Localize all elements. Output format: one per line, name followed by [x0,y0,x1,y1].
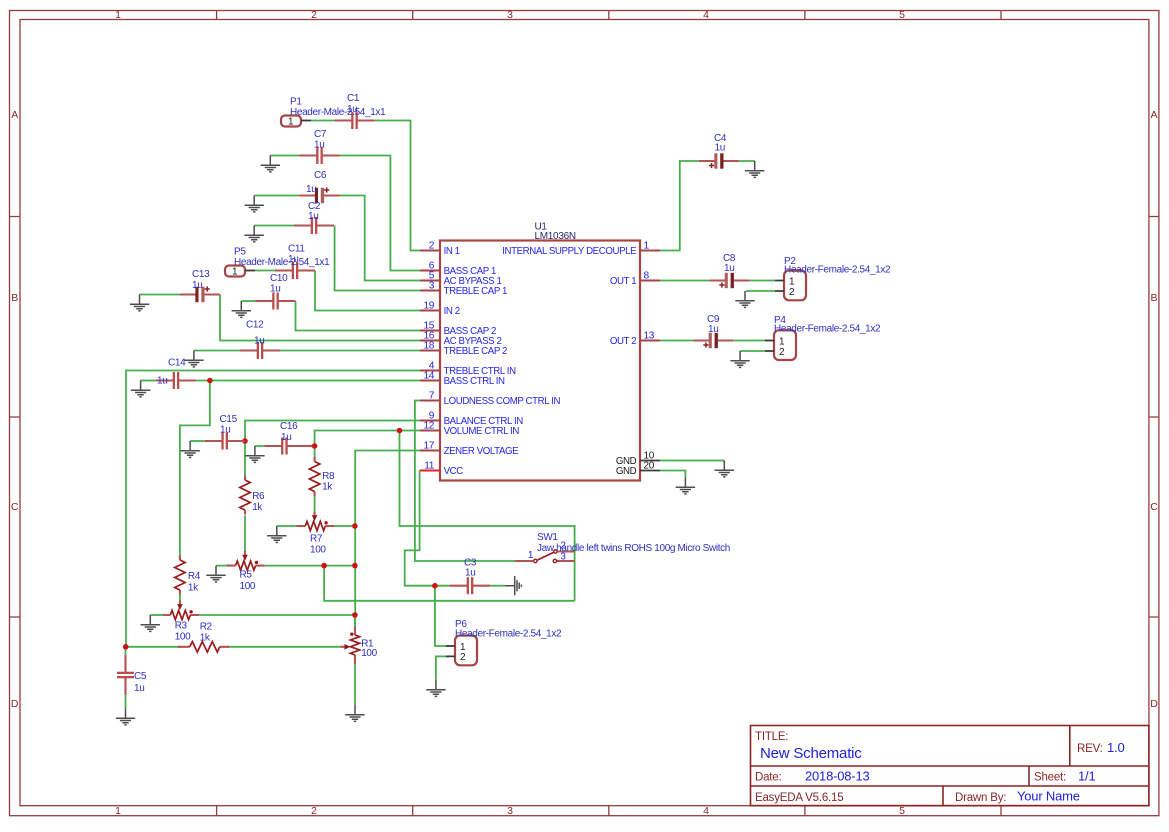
connector P2 Header-Female-2.54_1x2 [775,256,891,300]
svg-text:ZENER VOLTAGE: ZENER VOLTAGE [444,446,520,457]
ground C5 [116,709,135,725]
svg-text:TITLE:: TITLE: [755,731,788,743]
svg-text:Header-Female-2.54_1x2: Header-Female-2.54_1x2 [784,264,891,275]
svg-text:1u: 1u [220,425,230,436]
wire C10 to U1 pin 15 [296,301,421,331]
resistor R6 [240,476,265,515]
svg-text:1u: 1u [715,143,725,154]
U1 pin 20 (GND) [616,461,660,477]
svg-text:Your Name: Your Name [1017,789,1080,804]
connector P6 Header-Female-2.54_1x2 [446,619,562,665]
wire P2 pin 2 to ground [746,290,775,292]
wire C4 to ground [739,160,755,162]
wire U1 pin 11 VCC to C3 node [405,471,450,586]
svg-text:2: 2 [779,347,785,358]
wire U1 pin 13 to C9 [660,340,693,342]
svg-text:EasyEDA V5.6.15: EasyEDA V5.6.15 [755,792,843,804]
svg-text:New Schematic: New Schematic [760,745,862,762]
svg-text:Drawn By:: Drawn By: [955,792,1006,804]
wire C6 to ground [254,195,299,197]
potentiometer R5 [227,551,265,592]
svg-text:4: 4 [703,9,709,21]
svg-text:12: 12 [423,421,434,432]
wire C14 to ground [141,380,156,382]
capacitor C2 [294,201,334,234]
svg-text:R7: R7 [310,534,323,545]
svg-text:C12: C12 [246,320,264,331]
svg-text:1u: 1u [314,140,324,151]
svg-text:100: 100 [175,631,191,642]
svg-text:1u: 1u [306,184,316,195]
capacitor C13 [180,269,220,302]
svg-text:1: 1 [288,117,294,128]
svg-text:VCC: VCC [444,466,464,477]
svg-text:C6: C6 [314,170,327,181]
wire C9 to P4 pin 1 [733,340,769,342]
wire node to C5 [125,647,127,655]
svg-text:1k: 1k [200,633,211,644]
wire U1 pin 17 zener bus [355,451,420,627]
wire C5 to ground [125,695,127,709]
wire node bass to R4 [180,381,210,556]
capacitor C11 [275,244,315,280]
wire R3 to ground [150,614,163,616]
ground R5 [206,566,225,582]
wire C15 right lead node [244,440,246,442]
svg-text:1u: 1u [270,284,280,295]
U1 pin 9 (BALANCE CTRL IN) [420,411,523,427]
U1 pin 2 (IN 1) [420,241,460,257]
ground P6 [426,680,445,696]
capacitor C6 [300,170,340,203]
wire C3 node to P6 pin 1 [435,586,450,646]
resistor R2 [178,622,229,653]
wire P4 pin 2 to ground [740,350,765,352]
ground C2 [245,226,264,242]
wire C15 to ground [190,440,205,442]
svg-text:C: C [1150,501,1158,513]
svg-text:R2: R2 [200,622,213,633]
svg-text:11: 11 [424,461,435,472]
wire C13 to U1 pin 16 [220,295,420,341]
wire zener bus to R1 [354,615,356,627]
U1 pin 1 (INTERNAL SUPPLY DECOUPLE) [502,241,660,257]
svg-text:1u: 1u [157,376,167,387]
svg-text:A: A [1150,109,1157,121]
wire R5 to zener bus [265,565,355,567]
wire R6 to R5 wiper [244,515,246,551]
U1 pin 13 (OUT 2) [610,331,660,347]
resistor R8 [309,457,335,496]
wire P5 to C11 [255,270,275,272]
svg-text:R8: R8 [322,471,335,482]
junction C15/R6 node [242,438,248,444]
wire C13 to ground [140,294,181,296]
svg-text:2: 2 [311,9,317,21]
svg-text:100: 100 [240,581,256,592]
svg-text:2: 2 [429,241,435,252]
ground C7 [261,156,280,172]
svg-text:C13: C13 [192,269,210,280]
capacitor C1 [335,93,375,129]
capacitor C12 [240,320,280,360]
ground C15 [180,441,199,457]
junction R5/SW bus [321,563,327,569]
svg-text:18: 18 [423,341,434,352]
svg-text:OUT 1: OUT 1 [610,276,636,287]
ground R1 [345,705,364,721]
svg-text:GND: GND [616,466,637,477]
capacitor C15 [205,414,245,450]
U1 pin 7 (LOUDNESS COMP CTRL IN) [420,391,560,407]
svg-text:100: 100 [310,545,326,556]
junction volume node [397,428,403,434]
wire C14 to U1 pin 14 [196,380,420,382]
wire U1 pin 9 to C15 node [245,421,420,442]
svg-text:1k: 1k [322,482,333,493]
wire R7 to zener bus [334,525,355,527]
capacitor C7 [300,129,340,164]
svg-text:R5: R5 [240,570,253,581]
svg-text:1: 1 [460,642,466,653]
wire C2 to ground [254,225,294,227]
svg-text:1u: 1u [308,211,318,222]
svg-text:VOLUME CTRL IN: VOLUME CTRL IN [444,426,520,437]
svg-text:C16: C16 [280,421,298,432]
capacitor C14 [156,358,196,390]
wire R1 to ground [354,664,356,705]
junction R5/zener bus [352,563,358,569]
op-amp U1 LM1036N body [440,222,640,481]
svg-text:1: 1 [779,336,785,347]
svg-text:3: 3 [507,805,513,817]
title block outline [751,726,1149,807]
svg-text:Header-Female-2.54_1x2: Header-Female-2.54_1x2 [455,628,562,639]
wire volume node to SW1 [400,431,575,601]
svg-text:TREBLE CAP 1: TREBLE CAP 1 [444,286,507,297]
wire C12 to U1 pin 18 [280,350,420,352]
svg-text:5: 5 [899,9,905,21]
svg-text:Header-Male-2.54_1x1: Header-Male-2.54_1x1 [290,107,386,118]
svg-text:LM1036N: LM1036N [535,231,576,242]
svg-text:1: 1 [644,241,650,252]
svg-text:IN 2: IN 2 [444,306,460,317]
connector P1 Header-Male-2.54_1x1 [281,97,386,128]
svg-text:C5: C5 [134,671,147,682]
capacitor C10 [256,273,296,310]
wire C7 to ground [270,155,299,157]
svg-text:Header-Male-2.54_1x1: Header-Male-2.54_1x1 [234,257,330,268]
ground C3 [505,576,521,595]
svg-text:1: 1 [115,805,121,817]
ground C6 [245,196,264,212]
capacitor C3 [450,558,490,595]
svg-text:OUT 2: OUT 2 [610,336,636,347]
junction C16/R8 node [312,443,318,449]
U1 pin 19 (IN 2) [420,301,460,317]
svg-text:17: 17 [423,441,434,452]
wire P1 to C1 [311,120,335,122]
svg-text:R4: R4 [188,571,201,582]
wire C8 to P2 pin 1 [749,280,775,282]
svg-text:D: D [1150,698,1158,710]
svg-text:C14: C14 [168,358,186,369]
svg-text:Jaw handle left twins ROHS 100: Jaw handle left twins ROHS 100g Micro Sw… [537,543,730,554]
svg-text:2: 2 [789,287,795,298]
wire C10 to ground [241,300,255,302]
svg-text:7: 7 [429,391,435,402]
junction bass ctrl node [207,378,213,384]
svg-text:A: A [11,109,18,121]
svg-text:5: 5 [899,805,905,817]
wire R8 to R7 wiper [314,492,316,512]
wire C7 to U1 pin 6 [340,156,421,271]
ground P4 [730,351,749,367]
svg-text:1: 1 [232,267,238,278]
wire U1 pin 20 GND [660,471,685,478]
svg-text:8: 8 [644,271,650,282]
svg-text:Sheet:: Sheet: [1034,772,1066,784]
wire C16 to ground [255,445,265,447]
wire C6 to U1 pin 5 [340,196,421,281]
wire C12 to ground [194,350,240,352]
wire U1 pin 4 to node R2/C5 [126,371,420,647]
svg-text:LOUDNESS COMP CTRL IN: LOUDNESS COMP CTRL IN [444,396,561,407]
svg-text:1/1: 1/1 [1078,769,1095,784]
ground C12 [184,351,203,367]
U1 pin 10 (GND) [616,451,660,467]
svg-text:1: 1 [115,9,121,21]
U1 pin 16 (AC BYPASS 2) [420,331,501,347]
wire R5 to ground [216,565,227,567]
capacitor C8 [709,253,749,288]
wire C16 right lead node [304,445,314,447]
svg-text:1: 1 [789,276,795,287]
svg-text:C15: C15 [220,414,238,425]
svg-text:1u: 1u [192,280,202,291]
U1 pin 12 (VOLUME CTRL IN) [420,421,519,437]
svg-text:BASS CTRL IN: BASS CTRL IN [444,376,505,387]
svg-text:1u: 1u [724,263,734,274]
svg-text:2: 2 [311,805,317,817]
svg-text:1u: 1u [134,683,144,694]
svg-text:1u: 1u [254,336,264,347]
svg-text:2: 2 [460,652,466,663]
svg-text:C10: C10 [270,273,288,284]
svg-text:3: 3 [429,281,435,292]
wire C16 node to R8 [314,446,316,458]
svg-text:3: 3 [507,9,513,21]
wire U1 pin 1 to C4 [660,161,699,251]
U1 pin 3 (TREBLE CAP 1) [420,281,507,297]
svg-text:1u: 1u [708,324,718,335]
wire C11 to U1 pin 19 [315,271,420,311]
capacitor C4 [699,133,739,169]
wire R4 to R3 wiper [179,595,181,601]
svg-text:C7: C7 [314,129,327,140]
wire C3 to ground [490,585,505,587]
wire node to R2 [126,646,182,648]
svg-text:14: 14 [423,371,434,382]
junction R7/zener bus [352,523,358,529]
ground P2 [735,291,754,307]
wire C2 to U1 pin 3 [335,226,420,291]
connector P5 Header-Male-2.54_1x1 [225,247,330,278]
wire R7 to ground [277,525,297,527]
svg-text:Date:: Date: [755,772,782,784]
ground C13 [130,295,149,311]
U1 pin 8 (OUT 1) [610,271,660,287]
svg-text:2018-08-13: 2018-08-13 [805,769,870,784]
wire R2 to R1 wiper [227,646,341,648]
U1 pin 5 (AC BYPASS 1) [420,271,501,287]
wire R5 node to SW1 bus [324,566,574,601]
svg-text:1.0: 1.0 [1107,740,1124,755]
wire C1 to U1 pin 2 [375,121,421,251]
ground U1 pin 10 [715,461,734,477]
wire R3 to zener bus [199,614,355,616]
U1 pin 17 (ZENER VOLTAGE) [420,441,519,457]
ground R7 [267,526,286,542]
junction C3/P6 node [432,583,438,589]
U1 pin 11 (VCC) [420,461,464,477]
svg-text:C1: C1 [347,93,360,104]
svg-text:1: 1 [528,550,533,561]
svg-text:20: 20 [644,461,655,472]
svg-text:C11: C11 [288,244,305,255]
switch SW1 [515,532,730,563]
capacitor C9 [693,314,733,348]
wire C15 node to R6 [244,441,246,476]
svg-text:B: B [1150,292,1157,304]
ground C14 [131,381,150,397]
capacitor C16 [264,421,304,455]
svg-text:1u: 1u [465,568,475,579]
potentiometer R7 [297,511,335,555]
wire U1 pin 12 to C16 node [315,431,420,447]
ground R3 [141,615,160,631]
wire U1 pin 10 GND [660,460,724,462]
svg-text:INTERNAL SUPPLY DECOUPLE: INTERNAL SUPPLY DECOUPLE [502,246,637,257]
connector P4 Header-Female-2.54_1x2 [765,315,881,360]
resistor R4 [175,556,201,595]
svg-text:REV:: REV: [1077,743,1103,755]
svg-text:1k: 1k [252,502,263,513]
svg-text:D: D [11,698,19,710]
U1 pin 14 (BASS CTRL IN) [420,371,505,387]
U1 pin 18 (TREBLE CAP 2) [420,341,507,357]
U1 pin 6 (BASS CAP 1) [420,261,496,277]
junction R3/zener bus [352,612,358,618]
svg-text:B: B [11,292,18,304]
svg-text:C: C [11,501,19,513]
potentiometer R3 [163,600,199,642]
svg-text:Header-Female-2.54_1x2: Header-Female-2.54_1x2 [774,323,881,334]
svg-text:4: 4 [703,805,709,817]
ground C16 [245,446,264,462]
svg-text:1u: 1u [281,432,291,443]
svg-text:R6: R6 [252,491,265,502]
wire P6 pin 2 to ground [436,656,450,680]
ground C10 [232,301,251,317]
svg-text:IN 1: IN 1 [444,246,460,257]
capacitor C5 [117,655,147,695]
ground C4 [745,161,764,177]
wire U1 pin 7 to SW1 pin 1 [415,401,515,562]
svg-text:13: 13 [644,331,655,342]
U1 pin 15 (BASS CAP 2) [420,321,496,337]
junction R2/C5 node [123,644,129,650]
svg-text:1k: 1k [188,583,199,594]
U1 pin 4 (TREBLE CTRL IN) [420,361,516,377]
svg-text:SW1: SW1 [537,532,558,543]
wire U1 pin 8 to C8 [660,280,709,282]
potentiometer R1 [341,627,378,665]
svg-text:100: 100 [361,648,377,659]
svg-text:19: 19 [423,301,434,312]
svg-text:TREBLE CAP 2: TREBLE CAP 2 [444,346,507,357]
ground U1 pin 20 [676,478,695,494]
svg-text:R3: R3 [175,620,188,631]
